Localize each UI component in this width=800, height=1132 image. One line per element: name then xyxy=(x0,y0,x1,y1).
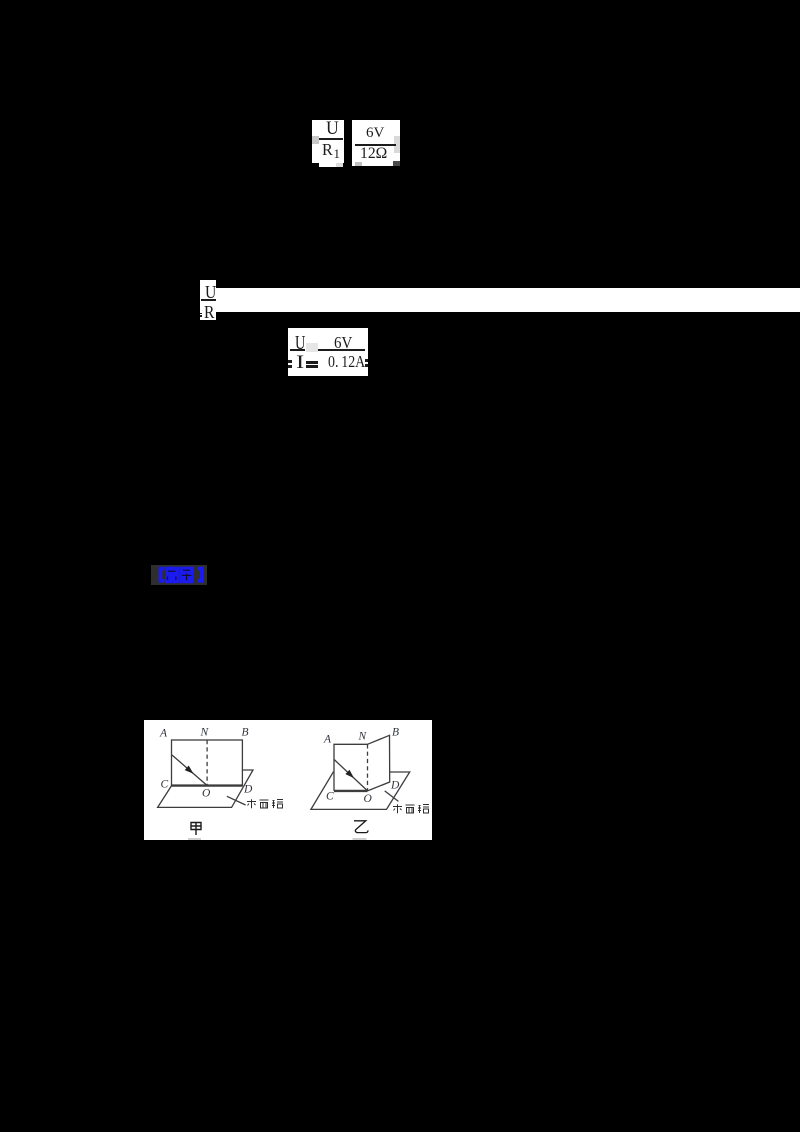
formula 6V denominator 12ohm xyxy=(360,146,387,162)
svg-text:D: D xyxy=(390,780,400,792)
clipped equals artifact at U/R left edge xyxy=(200,313,202,315)
yi left panel bottom thick edge xyxy=(334,790,368,792)
svg-text:A: A xyxy=(323,733,332,745)
left bracket xyxy=(159,567,165,583)
formula U/R1 fraction bar xyxy=(319,138,343,140)
yi ray arrowhead xyxy=(345,770,354,778)
formula U/R1 subscript 1 xyxy=(334,147,341,160)
yi screen right panel outline xyxy=(368,735,390,791)
jia light ray xyxy=(172,755,207,785)
clipped next-line text top under jia xyxy=(188,838,201,840)
svg-text:C: C xyxy=(326,791,334,803)
svg-text:O: O xyxy=(202,787,211,799)
formula UI gray patch xyxy=(306,343,318,352)
jia screen bottom thick edge xyxy=(172,784,243,786)
jia caption xyxy=(191,823,201,836)
svg-text:D: D xyxy=(243,784,253,796)
jia normal dashed line NO xyxy=(206,740,208,786)
formula U/R1 denominator R xyxy=(322,141,333,158)
svg-text:A: A xyxy=(159,727,168,739)
formula image U/R xyxy=(200,280,216,320)
formula UI right fraction bar xyxy=(318,349,365,351)
figure panel with mirror diagrams xyxy=(144,720,432,840)
yi caption xyxy=(354,821,368,833)
formula image U/I = 6V/0.12A xyxy=(288,328,368,376)
formula 6V dark mark bottom-right xyxy=(393,161,400,166)
clipped next-line text top under yi xyxy=(353,838,367,840)
yi screen left panel outline xyxy=(334,744,368,791)
formula U/R fraction bar xyxy=(201,299,216,301)
formula image 6V/12ohm xyxy=(352,120,400,166)
formula UI numerator U xyxy=(295,333,305,353)
formula UI clipped equals right edge xyxy=(365,359,368,362)
svg-text:N: N xyxy=(200,727,210,739)
jia ray arrowhead xyxy=(185,766,194,774)
formula UI left fraction bar xyxy=(290,349,305,351)
glyph blob 2 xyxy=(180,567,194,584)
formula UI thick equals upper xyxy=(306,361,318,364)
yi normal dashed line NO xyxy=(367,744,369,791)
formula 6V gray patch right edge xyxy=(394,136,400,153)
jia mirror plane parallelogram xyxy=(158,770,253,807)
formula UI denominator 0.12A xyxy=(328,353,365,370)
formula U/R1 gray patch left xyxy=(312,136,319,144)
yi light ray xyxy=(334,759,367,790)
formula UI clipped equals left edge xyxy=(288,360,292,363)
formula U/R1 white tab bottom xyxy=(319,163,343,167)
svg-text:B: B xyxy=(392,727,399,739)
jia mirror label pingmianjing xyxy=(247,799,283,808)
formula UI denominator I xyxy=(296,353,304,372)
right bracket xyxy=(198,567,204,583)
yi screen panels white fill xyxy=(334,735,390,791)
svg-text:B: B xyxy=(242,727,249,739)
formula U/R1 numerator U xyxy=(326,119,339,138)
white strip after U/R xyxy=(216,288,800,312)
svg-text:O: O xyxy=(364,793,373,805)
yi leader line xyxy=(385,791,399,802)
blue heading dianping brackets and glyph blobs xyxy=(151,565,207,585)
formula UI numerator 6V xyxy=(334,334,352,351)
formula 6V numerator 6V xyxy=(366,126,384,141)
formula U/R denominator R xyxy=(204,303,214,321)
formula 6V fraction bar xyxy=(355,144,396,146)
yi mirror label pingmianjing xyxy=(393,804,429,813)
formula 6V gray patch bottom-left xyxy=(355,162,362,166)
formula U/R numerator U xyxy=(205,283,216,301)
formula UI thick equals lower xyxy=(306,365,318,368)
yi mirror plane parallelogram xyxy=(311,735,410,809)
jia screen rectangle xyxy=(172,740,243,786)
formula image U/R1 xyxy=(312,120,344,163)
svg-text:C: C xyxy=(161,779,169,791)
svg-text:N: N xyxy=(358,731,368,743)
jia leader line xyxy=(227,796,246,805)
formula U/R1 gray patch bottom-right xyxy=(336,163,343,167)
heading highlight background xyxy=(151,565,207,585)
glyph blob 1 xyxy=(165,567,179,584)
